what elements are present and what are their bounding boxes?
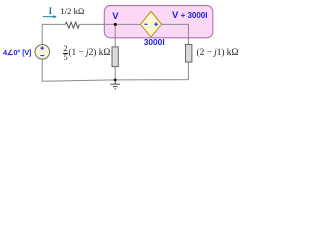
highlight region box: [104, 6, 213, 38]
bottom junction dot: [114, 78, 117, 81]
wire: top-left from source up and right: [42, 24, 65, 45]
VS1 minus sign: [40, 55, 44, 57]
label 4 angle 0 [V]: [3, 48, 31, 57]
current arrow I: [43, 16, 54, 18]
ground symbol: [111, 80, 121, 89]
dependent source diamond: [140, 11, 161, 37]
resistor R2 (middle, box): [112, 47, 118, 67]
wire: node V down through box to resistor: [114, 24, 116, 47]
wire: resistor to node V: [80, 23, 141, 25]
label 2/5 fraction bar: [63, 52, 69, 55]
VS1 plus sign: [40, 46, 44, 50]
label (2-j1) kOhm: [197, 48, 239, 58]
label (1-j2) kOhm: [68, 48, 110, 58]
label 2/5 fraction denominator: [63, 54, 69, 62]
diamond minus sign: [144, 23, 147, 25]
node V junction dot: [114, 23, 117, 26]
label 1/2 kOhm: [60, 6, 84, 16]
resistor R1 1/2 kOhm (zigzag): [65, 22, 79, 28]
diamond plus sign: [154, 22, 158, 26]
wire: middle resistor to bottom rail: [114, 67, 116, 80]
wire: diamond right to corner and down: [162, 24, 189, 44]
wire: bottom rail: [42, 59, 188, 81]
label 2/5 fraction numerator: [63, 45, 69, 53]
resistor R3 (right, box): [186, 44, 192, 62]
label 3000I (dependent source value): [144, 37, 165, 47]
label node V: [112, 11, 118, 22]
label I (current): [49, 6, 53, 16]
label node V + 3000I: [172, 10, 207, 21]
voltage source VS1 circle: [35, 45, 50, 60]
